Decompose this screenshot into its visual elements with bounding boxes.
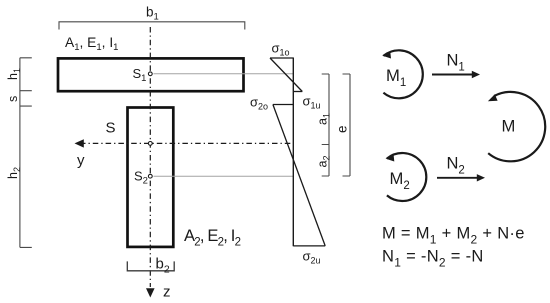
label s — [6, 96, 20, 102]
svg-text:N2: N2 — [447, 155, 465, 177]
dimension b2 bracket — [127, 261, 174, 270]
label N2 — [447, 155, 465, 177]
label sigma2u — [303, 249, 321, 266]
dimension a1/a2 bracket — [322, 74, 329, 176]
svg-text:N1 = -N2 = -N: N1 = -N2 = -N — [382, 248, 484, 270]
moment arrow M2 arc — [386, 153, 427, 201]
svg-text:σ1u: σ1u — [303, 94, 321, 111]
label S2 — [134, 169, 148, 187]
moment arrow M1 arc — [382, 50, 423, 98]
label b1 — [146, 5, 159, 23]
svg-text:h1: h1 — [6, 68, 22, 80]
dimension e bracket — [343, 74, 351, 176]
svg-text:e: e — [335, 125, 350, 133]
svg-text:S: S — [106, 120, 116, 137]
svg-text:M: M — [502, 117, 516, 136]
svg-text:M = M1 + M2 + N·e: M = M1 + M2 + N·e — [382, 224, 525, 246]
svg-text:M2: M2 — [390, 169, 410, 192]
svg-text:a2: a2 — [316, 156, 332, 168]
flange stress diagonal — [270, 58, 302, 92]
label a2 — [316, 156, 332, 168]
flange stress top line sigma1o level — [270, 57, 293, 59]
dimension b1 bracket — [59, 22, 245, 30]
web stress top line sigma2o level — [273, 104, 293, 106]
label b2 — [156, 256, 170, 276]
force arrow N2 — [437, 174, 485, 181]
label h2 — [6, 167, 22, 179]
label M — [502, 117, 516, 136]
grey line at S2 level — [154, 175, 294, 177]
svg-text:A2, E2, I2: A2, E2, I2 — [184, 227, 241, 249]
svg-text:s: s — [6, 96, 20, 102]
force arrow N1 — [432, 71, 480, 78]
label sigma2o — [250, 95, 268, 112]
web stress bottom line sigma2u level — [293, 245, 325, 247]
web rectangle part 2 — [128, 108, 174, 247]
svg-text:b2: b2 — [156, 256, 170, 276]
svg-text:h2: h2 — [6, 167, 22, 179]
label N1 — [447, 52, 465, 74]
svg-text:a1: a1 — [316, 113, 332, 125]
label a1 — [316, 113, 332, 125]
svg-text:A1, E1, I1: A1, E1, I1 — [65, 35, 118, 53]
svg-text:σ2o: σ2o — [250, 95, 268, 112]
z axis arrowhead — [146, 288, 155, 297]
svg-text:σ1o: σ1o — [272, 41, 290, 58]
horizontal y-axis dash-dot — [80, 142, 293, 144]
moment arrow M resultant arc — [488, 92, 545, 161]
label M2 — [390, 169, 410, 192]
label e — [335, 125, 350, 133]
label A1, E1, I1 — [65, 35, 118, 53]
equation M = M1 + M2 + N.e — [382, 224, 525, 246]
centroid S1 circle — [148, 72, 152, 76]
flange rectangle part 1 — [58, 58, 244, 91]
svg-text:y: y — [77, 152, 85, 169]
svg-text:N1: N1 — [447, 52, 465, 74]
label sigma1u — [303, 94, 321, 111]
label S (centroid) — [106, 120, 116, 137]
label z — [163, 284, 171, 301]
label A2, E2, I2 — [184, 227, 241, 249]
grey line at S1 level — [154, 73, 294, 75]
flange stress bottom line sigma1u level — [293, 91, 302, 93]
centroid S circle — [148, 142, 152, 146]
label sigma1o — [272, 41, 290, 58]
web stress diagonal — [273, 105, 325, 246]
centroid S2 circle — [148, 174, 152, 178]
svg-text:M1: M1 — [386, 66, 406, 89]
label M1 — [386, 66, 406, 89]
svg-text:z: z — [163, 284, 171, 301]
stress diagram zero axis — [292, 58, 294, 247]
label S1 — [133, 66, 147, 84]
label y — [77, 152, 85, 169]
dimension chain h1/s/h2 bracket — [20, 58, 32, 248]
y axis arrowhead — [75, 139, 84, 147]
equation N1 = -N2 = -N — [382, 248, 484, 270]
svg-text:σ2u: σ2u — [303, 249, 321, 266]
svg-text:b1: b1 — [146, 5, 159, 23]
label h1 — [6, 68, 22, 80]
vertical centerline z-axis dash-dot — [149, 27, 151, 287]
